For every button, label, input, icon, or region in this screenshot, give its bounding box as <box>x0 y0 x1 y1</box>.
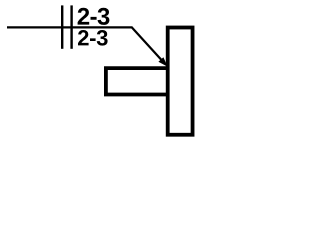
weld symbol bar 2 <box>70 5 72 48</box>
weld symbol bar 1 <box>61 5 63 48</box>
wire leader diagonal <box>132 27 162 60</box>
label 2-3 below line <box>78 30 108 46</box>
label 2-3 above line <box>78 8 110 25</box>
wire reference line <box>7 26 133 28</box>
vertical plate <box>168 28 193 135</box>
arrowhead <box>158 57 167 67</box>
horizontal plate <box>106 68 167 94</box>
